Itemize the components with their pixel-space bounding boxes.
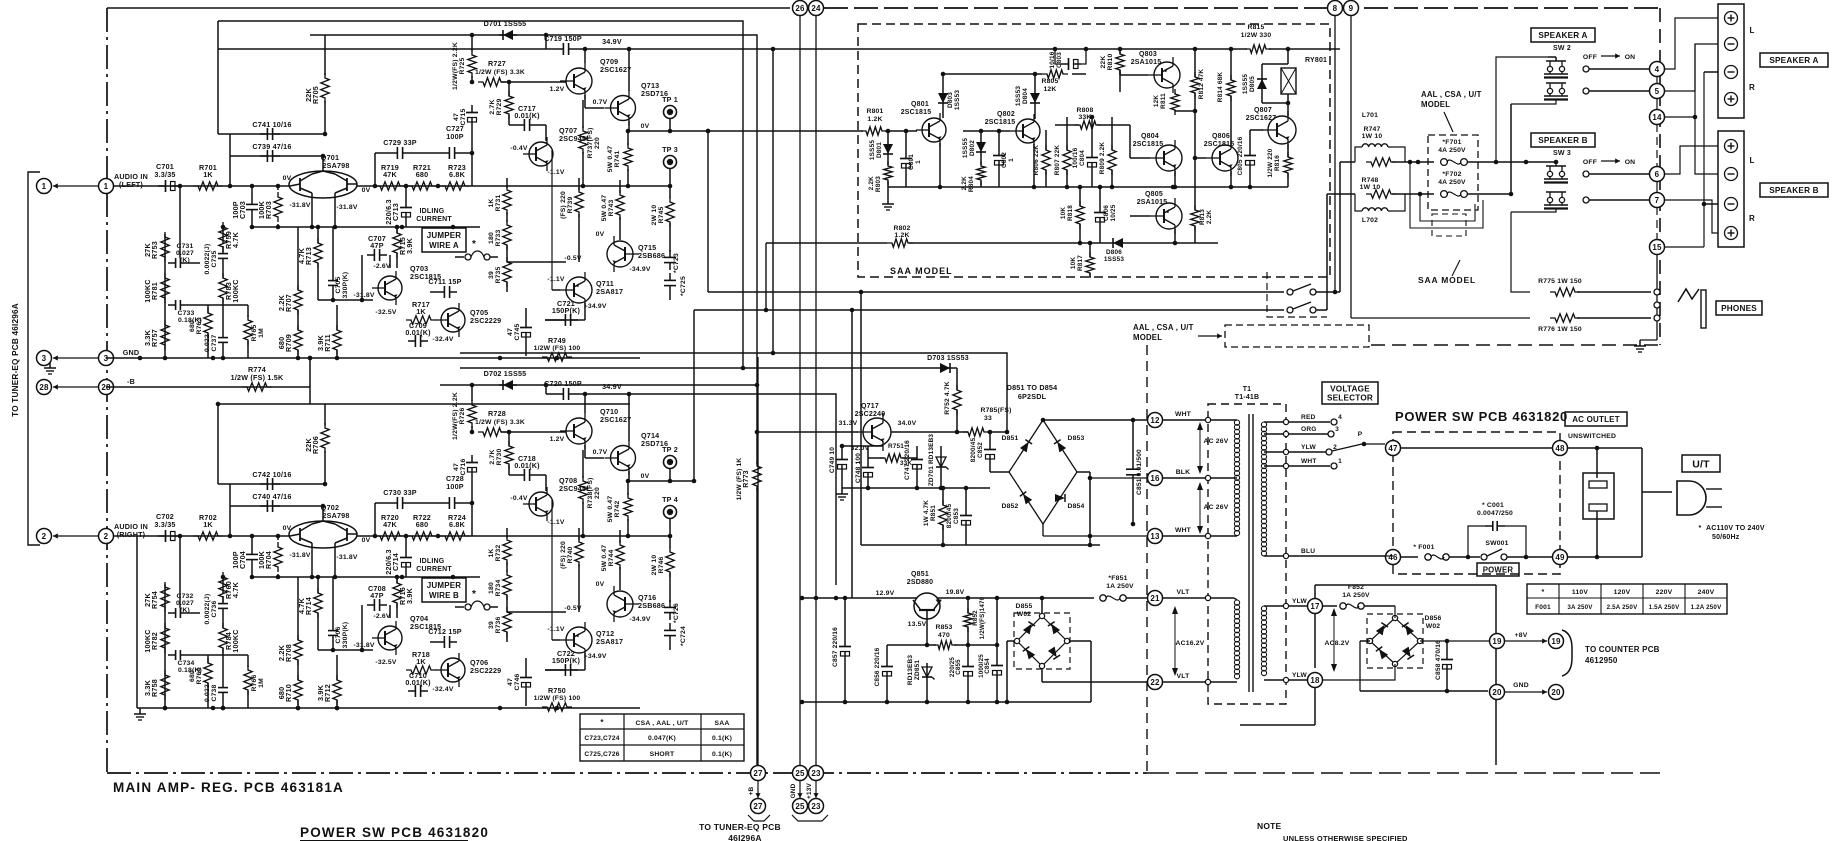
- svg-text:VOLTAGE: VOLTAGE: [1330, 384, 1370, 393]
- resistor R709 680: [294, 325, 302, 355]
- svg-text:C729 33P: C729 33P: [383, 138, 417, 147]
- resistor R726 2.2K: [468, 400, 476, 428]
- wire -B drop to lower channel: [309, 387, 311, 404]
- svg-text:-31.8V: -31.8V: [289, 202, 310, 209]
- capacitor C740: [230, 505, 323, 507]
- node pin 6: [1650, 167, 1665, 182]
- svg-text:6: 6: [1655, 170, 1660, 179]
- resistor R776 1W 150: [1550, 314, 1580, 322]
- svg-text:0.0022(J): 0.0022(J): [204, 594, 211, 625]
- capacitor C738 0.022: [222, 680, 224, 688]
- table fuse ratings: [1527, 584, 1727, 614]
- svg-text:AC110V TO 240V: AC110V TO 240V: [1706, 525, 1765, 532]
- svg-text:(LEFT): (LEFT): [119, 180, 143, 189]
- resistor R703 100K: [274, 192, 282, 222]
- svg-text:2.2K: 2.2K: [277, 644, 286, 661]
- resistor R730 2.7K: [505, 441, 513, 469]
- svg-text:47: 47: [453, 113, 460, 121]
- svg-text:47K: 47K: [383, 170, 397, 179]
- zener ZD851 RD13EB3: [926, 663, 928, 681]
- svg-text:ZD701 RD13EB3: ZD701 RD13EB3: [928, 434, 935, 487]
- node pin 27 lower: [751, 799, 766, 814]
- terminal block speaker A: [1718, 4, 1744, 118]
- svg-text:D853: D853: [1067, 435, 1084, 442]
- svg-text:R: R: [1749, 83, 1755, 92]
- test point TP 2: [664, 456, 677, 469]
- wire phones feed R: [1351, 317, 1530, 319]
- transistor Q703 2SC1815: [378, 276, 402, 300]
- resistor R745 2W 10: [666, 197, 674, 227]
- svg-text:22K: 22K: [304, 88, 313, 102]
- svg-text:1W 10: 1W 10: [1362, 133, 1383, 140]
- svg-text:1.5A 250V: 1.5A 250V: [1649, 604, 1680, 611]
- svg-text:1SS55: 1SS55: [1242, 74, 1249, 94]
- svg-text:R818: R818: [1067, 205, 1074, 221]
- wire dashed AAL boundary power: [1146, 345, 1148, 773]
- svg-text:R765: R765: [251, 324, 258, 341]
- svg-text:C805 220/16: C805 220/16: [1237, 136, 1244, 175]
- svg-text:0.027: 0.027: [176, 250, 194, 257]
- svg-text:R805: R805: [1041, 78, 1058, 85]
- wire border links pins: [1656, 76, 1658, 84]
- capacitor C711 15P: [437, 291, 444, 293]
- svg-text:C705: C705: [335, 276, 342, 293]
- resistor R729 2.7K: [505, 91, 513, 119]
- resistor R758 3.3K: [161, 670, 169, 700]
- capacitor C717 0.01(K): [509, 124, 517, 126]
- switch relay contact R: [1287, 307, 1293, 313]
- svg-text:0V: 0V: [283, 175, 292, 182]
- svg-text:1.2V: 1.2V: [550, 436, 565, 443]
- node pin 19 counter: [1549, 634, 1564, 649]
- svg-text:2.7K: 2.7K: [489, 449, 496, 464]
- resistor R751 33K: [880, 454, 906, 462]
- wire YLW to 17: [1289, 605, 1307, 607]
- svg-text:TP 2: TP 2: [662, 445, 678, 454]
- svg-text:5: 5: [1655, 87, 1660, 96]
- svg-text:680: 680: [277, 687, 286, 700]
- svg-text:C742 10/16: C742 10/16: [252, 470, 291, 479]
- svg-text:33K: 33K: [1078, 114, 1091, 121]
- fuse F702 4A 250V: [1441, 191, 1448, 198]
- svg-text:1/2W 330: 1/2W 330: [1241, 32, 1272, 39]
- wire mid rail: [252, 226, 480, 228]
- terminal block speaker B: [1718, 131, 1744, 247]
- svg-text:C803: C803: [1056, 52, 1063, 68]
- svg-text:SPEAKER A: SPEAKER A: [1538, 31, 1587, 40]
- svg-text:AC16.2V: AC16.2V: [1176, 640, 1205, 647]
- svg-text:47K: 47K: [383, 520, 397, 529]
- switch SW001 POWER: [1481, 554, 1487, 560]
- capacitor C725: [669, 273, 671, 280]
- svg-text:1: 1: [104, 182, 109, 191]
- capacitor C716 47: [471, 455, 473, 463]
- svg-text:24: 24: [811, 4, 821, 13]
- resistor R724 6.8K: [440, 532, 470, 540]
- box AAL CSA UT MODEL dashed: [1225, 325, 1369, 347]
- svg-text:1000/25: 1000/25: [978, 654, 985, 678]
- svg-text:2.2K: 2.2K: [277, 294, 286, 311]
- svg-text:C736: C736: [211, 600, 218, 617]
- svg-text:C749 10: C749 10: [829, 447, 836, 473]
- capacitor C701: [158, 185, 166, 187]
- svg-text:C745: C745: [514, 323, 521, 340]
- wire Q09-Q13 link: [584, 95, 586, 108]
- svg-text:TO TUNER-EQ PCB 46I296A: TO TUNER-EQ PCB 46I296A: [11, 303, 20, 417]
- resistor R715 3.9K: [393, 228, 401, 258]
- svg-text:L701: L701: [1362, 112, 1378, 119]
- svg-text:F852: F852: [1348, 584, 1364, 591]
- resistor R711 3.9K: [333, 325, 341, 355]
- svg-text:100P: 100P: [446, 482, 464, 491]
- svg-text:WIRE A: WIRE A: [429, 241, 459, 250]
- svg-text:34.0V: 34.0V: [898, 420, 917, 427]
- node pin 48: [1553, 441, 1568, 456]
- box PHONES label: [1716, 301, 1762, 315]
- svg-text:*: *: [1542, 589, 1545, 596]
- wire bus x773 vertical: [772, 49, 774, 353]
- svg-text:120V: 120V: [1614, 589, 1631, 596]
- wire SW2 out L: [1583, 66, 1589, 72]
- svg-text:0.0047/250: 0.0047/250: [1477, 510, 1513, 517]
- svg-text:AC 26V: AC 26V: [1204, 504, 1229, 511]
- resistor R754 27K: [161, 582, 169, 612]
- node pin 22: [1148, 675, 1163, 690]
- svg-text:C734: C734: [177, 660, 194, 667]
- capacitor C709 0.01(K): [408, 340, 415, 342]
- node pin 49: [1553, 550, 1568, 565]
- svg-text:680: 680: [416, 520, 429, 529]
- transistor Q805 2SA1015: [1156, 203, 1182, 229]
- svg-text:C732: C732: [176, 593, 193, 600]
- svg-text:-31.8V: -31.8V: [336, 204, 357, 211]
- wire arrow pin 23: [815, 781, 817, 798]
- capacitor C746 47: [525, 670, 527, 678]
- svg-text:POWER: POWER: [1483, 565, 1514, 574]
- resistor R816 1/2W 220: [1284, 152, 1292, 178]
- capacitor C731 0.027: [168, 262, 176, 264]
- svg-text:2.2K: 2.2K: [868, 176, 875, 190]
- transistor Q704 2SC1815: [378, 626, 402, 650]
- svg-text:-1.1V: -1.1V: [547, 169, 565, 176]
- svg-text:2SA817: 2SA817: [596, 287, 623, 296]
- capacitor C721 150P(K): [558, 319, 565, 321]
- transistor Q709 2SC1627: [566, 68, 592, 94]
- svg-text:R749: R749: [548, 336, 566, 345]
- fuse F701 4A 250V: [1441, 159, 1448, 166]
- svg-text:R729: R729: [496, 98, 503, 115]
- wire arrow into pin 2: [53, 535, 98, 537]
- svg-text:1W 10: 1W 10: [1360, 184, 1381, 191]
- capacitor C851 0.01/500: [1132, 462, 1134, 469]
- svg-text:Q802: Q802: [997, 111, 1015, 118]
- capacitor C729 33P: [374, 153, 376, 186]
- svg-text:TO TUNER-EQ PCB: TO TUNER-EQ PCB: [699, 822, 781, 832]
- dual transistor Q701 2SA798: [289, 171, 357, 198]
- svg-text:D701 1SS55: D701 1SS55: [484, 19, 527, 28]
- capacitor C720 150P: [545, 385, 547, 394]
- svg-text:25: 25: [795, 769, 805, 778]
- svg-text:IDLING: IDLING: [420, 558, 445, 565]
- resistor R740 220: [575, 537, 583, 567]
- svg-text:RD13EB3: RD13EB3: [907, 655, 914, 685]
- svg-text:34.9V: 34.9V: [602, 37, 622, 46]
- svg-text:2SC1815: 2SC1815: [1133, 141, 1164, 148]
- fuse F851 1A 250V: [1100, 595, 1106, 601]
- svg-text:R744: R744: [608, 549, 615, 566]
- box SAA MODEL dashed: [858, 24, 1330, 277]
- resistor R734 180: [503, 570, 511, 600]
- diode D702 1SS55: [499, 384, 517, 386]
- svg-text:1/2W(FS) 2.2K: 1/2W(FS) 2.2K: [452, 42, 459, 90]
- wire dashed border y345 segment: [1371, 344, 1660, 346]
- svg-text:2SC2229: 2SC2229: [470, 316, 501, 325]
- wire input row right: [114, 535, 290, 537]
- svg-text:22K: 22K: [304, 438, 313, 452]
- capacitor C857 220/16: [844, 639, 846, 647]
- resistor R718 1K: [406, 666, 436, 674]
- wire arrow pin 27: [757, 781, 759, 798]
- svg-text:2SA817: 2SA817: [596, 637, 623, 646]
- svg-text:0V: 0V: [596, 581, 605, 588]
- svg-text:D804: D804: [1022, 88, 1029, 104]
- capacitor C735 0.0022(J): [222, 246, 224, 254]
- wire SW3 out R: [1583, 197, 1589, 203]
- resistor R807 22K: [1063, 145, 1071, 175]
- capacitor C804 100/16: [1091, 150, 1093, 158]
- svg-text:*C726: *C726: [673, 603, 680, 623]
- svg-text:R742: R742: [614, 500, 621, 517]
- capacitor C856 220/16: [886, 659, 888, 667]
- node pin 19: [1490, 634, 1505, 649]
- wire +34.9V rail y353: [460, 353, 1007, 432]
- node pin 23 on bottom border: [809, 766, 824, 781]
- resistor R712 3.9K: [333, 675, 341, 705]
- capacitor C745 47: [525, 320, 527, 328]
- svg-text:100P: 100P: [446, 132, 464, 141]
- resistor R775 1W 150: [1550, 288, 1580, 296]
- transformer secondary lower winding: [1261, 606, 1266, 611]
- svg-text:L: L: [1749, 26, 1754, 35]
- wire bridge leads: [990, 471, 1009, 473]
- svg-text:2SC1627: 2SC1627: [1246, 115, 1277, 122]
- wire 46 BLU vertical link: [1385, 555, 1393, 557]
- svg-text:1M: 1M: [258, 678, 265, 688]
- svg-text:0.0022(J): 0.0022(J): [204, 244, 211, 275]
- svg-text:1K: 1K: [488, 198, 495, 207]
- transistor Q705 2SC2229: [441, 308, 465, 332]
- svg-text:L702: L702: [1362, 217, 1378, 224]
- switch SW3 contact R: [1547, 197, 1552, 202]
- svg-text:2: 2: [104, 532, 109, 541]
- box U/T label: [1682, 455, 1720, 472]
- svg-text:100K: 100K: [257, 550, 266, 569]
- wire main PCB top border: [107, 7, 790, 9]
- svg-text:1: 1: [1338, 458, 1342, 465]
- svg-text:2SC1627: 2SC1627: [600, 65, 631, 74]
- wire feedback drop: [229, 134, 231, 186]
- svg-text:1SS55: 1SS55: [962, 138, 969, 158]
- svg-text:46: 46: [1388, 553, 1398, 562]
- wire bus x773: [218, 48, 1340, 50]
- svg-text:C747 220/16: C747 220/16: [904, 440, 911, 480]
- wire pin15 common B: [1664, 246, 1704, 248]
- svg-text:680: 680: [277, 337, 286, 350]
- box relay contacts dashed: [1267, 272, 1327, 317]
- svg-text:TP 4: TP 4: [662, 495, 678, 504]
- jumper wire box WIRE A: [422, 228, 466, 252]
- wire arrow to counter 20: [1505, 691, 1547, 693]
- svg-text:R752 4.7K: R752 4.7K: [944, 381, 951, 414]
- dual transistor Q702 2SA798: [289, 521, 357, 548]
- svg-text:WHT: WHT: [1301, 458, 1317, 465]
- svg-text:100P: 100P: [231, 201, 240, 219]
- capacitor C722 150P(K): [558, 669, 565, 671]
- svg-text:2SB686: 2SB686: [638, 601, 665, 610]
- node pin 25 on bottom border: [793, 766, 808, 781]
- svg-text:1/2W (FS) 1.5K: 1/2W (FS) 1.5K: [231, 373, 284, 382]
- svg-text:18: 18: [1310, 676, 1320, 685]
- wire bias column A: [164, 584, 166, 708]
- svg-text:1: 1: [42, 182, 47, 191]
- wire left bracket: [28, 172, 40, 545]
- resistor R727 3.3K: [478, 78, 506, 86]
- svg-text:VLT: VLT: [1177, 673, 1191, 680]
- svg-text:50/60Hz: 50/60Hz: [1712, 534, 1740, 541]
- svg-text:180: 180: [488, 582, 495, 594]
- svg-text:GND: GND: [790, 783, 797, 798]
- wire stage links: [318, 649, 373, 651]
- resistor R704 100K: [274, 542, 282, 572]
- svg-text:Q805: Q805: [1145, 191, 1163, 198]
- wire SAA base row: [708, 130, 917, 132]
- node pin 20: [1490, 685, 1505, 700]
- wire SW2 right channel riser: [1510, 104, 1512, 194]
- svg-text:R852: R852: [972, 610, 979, 626]
- svg-text:28: 28: [39, 383, 49, 392]
- svg-text:14: 14: [1652, 113, 1662, 122]
- svg-text:0V: 0V: [596, 231, 605, 238]
- svg-text:OFF: OFF: [1583, 54, 1597, 61]
- resistor R805 12K: [1042, 70, 1068, 78]
- svg-text:R737(FS): R737(FS): [587, 127, 594, 158]
- svg-text:27K: 27K: [143, 243, 152, 257]
- svg-text:4.7K: 4.7K: [231, 581, 240, 598]
- wire lower dashed border power section: [1147, 772, 1660, 774]
- transformer core: [1248, 414, 1250, 692]
- resistor R853 470: [933, 641, 957, 649]
- svg-text:R726: R726: [459, 407, 466, 424]
- svg-text:D806: D806: [1106, 249, 1122, 256]
- svg-text:-0.5V: -0.5V: [564, 605, 582, 612]
- svg-text:F001: F001: [1535, 604, 1551, 611]
- svg-text:0.7V: 0.7V: [593, 99, 608, 106]
- node pin 5: [1650, 84, 1665, 99]
- svg-text:OFF: OFF: [1583, 159, 1597, 166]
- capacitor C710 0.01(K): [408, 690, 415, 692]
- svg-text:1.2V: 1.2V: [550, 86, 565, 93]
- svg-text:0.01(K): 0.01(K): [405, 678, 431, 687]
- resistor R721 680: [407, 182, 437, 190]
- resistor R708 2.2K: [294, 635, 302, 665]
- svg-text:WHT: WHT: [1175, 411, 1192, 418]
- svg-text:SAA MODEL: SAA MODEL: [1418, 275, 1476, 285]
- svg-text:SPEAKER B: SPEAKER B: [1538, 136, 1588, 145]
- wire SAA model alternate path: [1410, 162, 1483, 228]
- wire mid row extension: [480, 185, 670, 187]
- node pin 46: [1386, 550, 1401, 565]
- svg-text:1/2W (FS) 100: 1/2W (FS) 100: [534, 345, 581, 352]
- svg-text:5W 0.47: 5W 0.47: [601, 195, 608, 222]
- wire collector drops: [311, 543, 313, 577]
- svg-text:C806: C806: [1103, 205, 1110, 221]
- svg-text:CSA , AAL , U/T: CSA , AAL , U/T: [636, 720, 690, 727]
- box POWER SW PCB dashed: [1393, 432, 1560, 574]
- capacitor C706 330P(K): [332, 623, 334, 631]
- capacitor C726: [669, 600, 671, 607]
- resistor R759 4.7K: [219, 222, 227, 252]
- capacitor C802 1: [998, 148, 1000, 156]
- svg-text:6.8K: 6.8K: [449, 520, 466, 529]
- svg-text:-0.4V: -0.4V: [510, 145, 528, 152]
- svg-text:T1: T1: [1243, 386, 1252, 393]
- capacitor C741: [218, 133, 325, 135]
- resistor R705 22K: [324, 35, 326, 75]
- transistor Q706 2SC2229: [441, 658, 465, 682]
- wire Q717 base feed: [757, 431, 858, 433]
- svg-text:9: 9: [1349, 4, 1354, 13]
- svg-text:IDLING: IDLING: [420, 208, 445, 215]
- resistor R817 10K: [1086, 252, 1094, 278]
- capacitor C727 100P: [442, 152, 449, 154]
- svg-text:R733: R733: [495, 229, 502, 246]
- svg-text:19: 19: [1492, 637, 1502, 646]
- svg-text:TP 3: TP 3: [662, 145, 678, 154]
- svg-text:D702 1SS55: D702 1SS55: [484, 369, 527, 378]
- svg-text:3.9K: 3.9K: [316, 334, 325, 351]
- node pin 4: [1650, 62, 1665, 77]
- svg-text:POWER SW PCB 4631820: POWER SW PCB 4631820: [1395, 409, 1568, 424]
- svg-text:Q807: Q807: [1254, 107, 1272, 114]
- wire ground rail right ch: [137, 707, 640, 709]
- resistor R810 22K: [1116, 49, 1124, 75]
- transistor Q807 2SC1627: [1268, 116, 1296, 144]
- svg-text:R763: R763: [196, 317, 203, 334]
- resistor R765 1M: [244, 315, 252, 345]
- svg-text:1/2W (FS) 100: 1/2W (FS) 100: [534, 695, 581, 702]
- wire pin7 to terminal: [1664, 200, 1718, 233]
- svg-text:Q801: Q801: [911, 101, 929, 108]
- svg-text:P: P: [1358, 431, 1363, 438]
- svg-text:2SB686: 2SB686: [638, 251, 665, 260]
- switch SW3 contact L: [1547, 171, 1552, 176]
- svg-text:150P(K): 150P(K): [552, 306, 581, 315]
- wire SAA low rail y243: [913, 242, 1109, 244]
- node pin 9 top: [1344, 1, 1359, 16]
- diode D701 1SS55: [499, 34, 517, 36]
- svg-text:-32.4V: -32.4V: [432, 686, 453, 693]
- svg-text:*C723: *C723: [673, 253, 680, 273]
- svg-text:-0.4V: -0.4V: [510, 495, 528, 502]
- resistor R752 4.7K: [953, 385, 961, 415]
- svg-text:UNLESS OTHERWISE SPECIFIED: UNLESS OTHERWISE SPECIFIED: [1283, 834, 1408, 841]
- svg-text:R750: R750: [548, 686, 566, 695]
- svg-text:*: *: [472, 589, 476, 600]
- svg-text:150P(K): 150P(K): [552, 656, 581, 665]
- svg-text:UNSWITCHED: UNSWITCHED: [1568, 433, 1616, 440]
- resistor R763 680: [204, 308, 212, 338]
- svg-text:R853: R853: [935, 624, 952, 631]
